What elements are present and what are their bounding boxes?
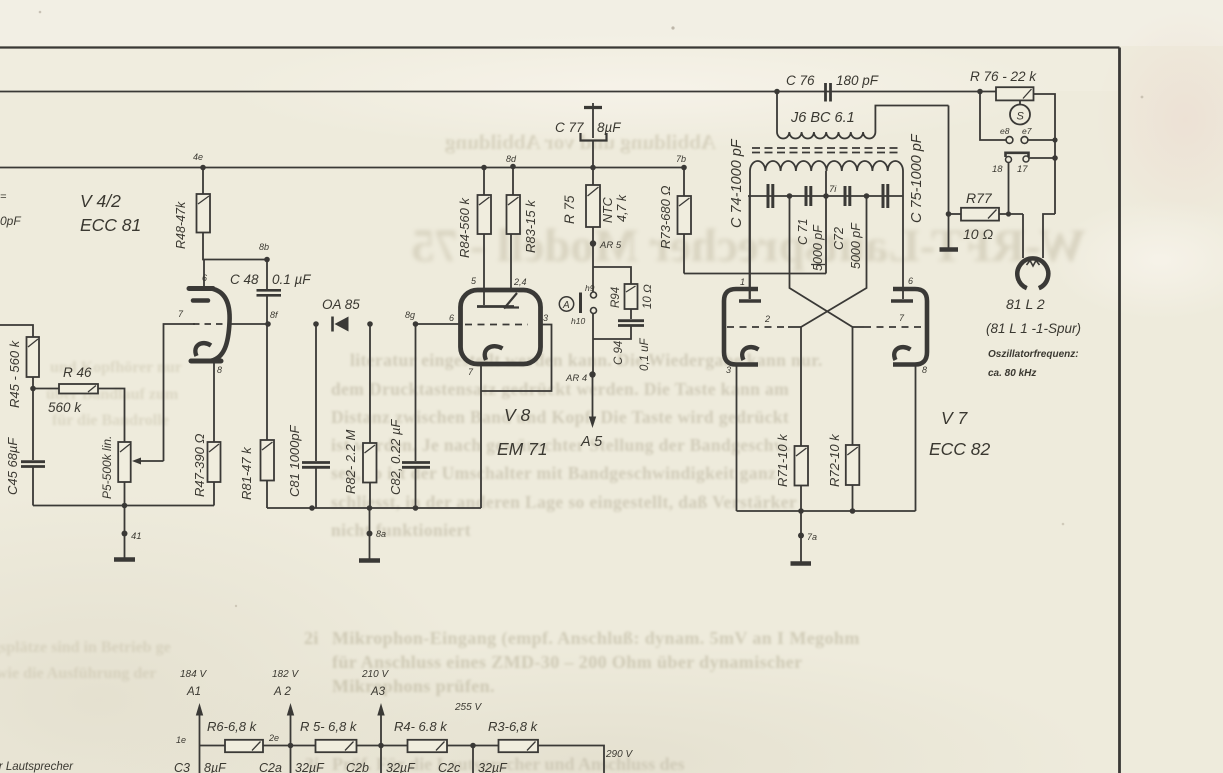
resistor R72-10k xyxy=(846,445,860,485)
svg-text:8: 8 xyxy=(922,365,927,375)
tube V8 pin7 wire down xyxy=(480,364,482,508)
capacitor C45 68uF xyxy=(32,389,34,461)
cross-coupling wires xyxy=(790,196,853,327)
svg-text:7b: 7b xyxy=(676,154,686,164)
resistor R5-6.8k xyxy=(316,740,357,752)
svg-text:EM 71: EM 71 xyxy=(497,439,548,459)
svg-text:8d: 8d xyxy=(506,154,517,164)
svg-text:32µF: 32µF xyxy=(478,761,508,773)
resistor R4-6.8k xyxy=(408,740,448,752)
svg-text:C82, 0.22 µF: C82, 0.22 µF xyxy=(388,419,403,495)
svg-text:8µF: 8µF xyxy=(204,761,227,773)
svg-text:6: 6 xyxy=(202,273,207,283)
resistor R84-560k xyxy=(481,165,487,171)
svg-text:R81-47 k: R81-47 k xyxy=(239,446,254,500)
node 7a with ground xyxy=(800,511,802,535)
branch wire to R94 xyxy=(593,267,631,284)
svg-text:ECC 82: ECC 82 xyxy=(929,439,991,459)
arrow to A5 xyxy=(592,375,594,420)
svg-text:1e: 1e xyxy=(176,735,186,745)
svg-text:R47-390 Ω: R47-390 Ω xyxy=(192,434,207,497)
resistor R48-47k xyxy=(202,168,204,195)
svg-text:C3: C3 xyxy=(174,761,190,773)
bleed-through paragraph text xyxy=(331,350,823,540)
capacitor leads below bus xyxy=(199,746,201,773)
capacitor C71 5000pF xyxy=(805,186,808,206)
svg-text:C 75-1000 pF: C 75-1000 pF xyxy=(909,133,925,223)
svg-text:(81 L 1 -1-Spur): (81 L 1 -1-Spur) xyxy=(986,321,1081,336)
svg-text:5000 pF: 5000 pF xyxy=(811,224,825,271)
tube V8 internal grid bar xyxy=(483,291,485,305)
svg-text:8b: 8b xyxy=(259,242,269,252)
svg-text:ECC 81: ECC 81 xyxy=(80,215,141,235)
svg-text:C 48: C 48 xyxy=(230,272,259,287)
svg-text:290 V: 290 V xyxy=(605,749,633,760)
capacitor C75-1000pF xyxy=(882,184,885,208)
wire transformer to R77 and ground xyxy=(948,106,950,249)
wire left edge to R45 xyxy=(0,325,33,337)
svg-text:OA 85: OA 85 xyxy=(322,297,360,312)
svg-text:R82- 2.2 M: R82- 2.2 M xyxy=(343,430,358,494)
svg-text:R83-15 k: R83-15 k xyxy=(523,199,538,253)
svg-text:AR 4: AR 4 xyxy=(565,373,587,384)
tube V7 left cathode rail xyxy=(736,365,738,512)
resistor R3-6.8k xyxy=(499,740,539,752)
svg-text:V 8: V 8 xyxy=(504,405,531,425)
tube V8 EM71 envelope xyxy=(461,290,541,364)
resistor R83-15k / node 8d xyxy=(510,164,516,170)
ground under node 41 xyxy=(124,534,126,559)
resistor R47-390R xyxy=(208,442,221,482)
tube V7 right envelope xyxy=(893,289,927,365)
svg-text:2,4: 2,4 xyxy=(513,277,527,287)
svg-text:wie die Ausführung der: wie die Ausführung der xyxy=(0,665,156,682)
svg-text:C 94: C 94 xyxy=(613,341,625,365)
P5 wiper arrow xyxy=(138,460,164,462)
svg-text:41: 41 xyxy=(131,531,142,542)
wire R48 to node 8b xyxy=(203,233,267,260)
tube V4/2 grid dashed line xyxy=(193,323,225,325)
svg-text:180 pF: 180 pF xyxy=(836,73,879,88)
svg-text:R3-6,8 k: R3-6,8 k xyxy=(488,719,539,734)
svg-text:P5-500k lin.: P5-500k lin. xyxy=(100,436,114,499)
svg-text:8: 8 xyxy=(217,365,222,375)
svg-text:0,1 uF: 0,1 uF xyxy=(639,337,651,371)
svg-text:C2b: C2b xyxy=(346,761,369,773)
wire tube arc to node 8f xyxy=(228,323,268,325)
scan specks xyxy=(39,11,1144,608)
svg-text:C72: C72 xyxy=(832,227,846,250)
node P5 bottom xyxy=(122,503,128,509)
oscillator transformer secondary xyxy=(750,161,903,171)
svg-text:C 71: C 71 xyxy=(796,219,810,245)
tube V4/2 envelope (half tube) xyxy=(189,286,213,291)
lamp 81 L 2 xyxy=(1017,258,1048,288)
svg-text:C 76: C 76 xyxy=(786,73,815,88)
capacitor C74-1000pF xyxy=(767,184,770,208)
svg-text:R77: R77 xyxy=(966,190,993,206)
svg-text:7i: 7i xyxy=(829,184,837,195)
svg-text:8a: 8a xyxy=(376,529,386,539)
svg-text:AR 5: AR 5 xyxy=(599,240,622,251)
lamp left lead xyxy=(1022,214,1024,258)
svg-text:R48-47k: R48-47k xyxy=(174,201,188,249)
svg-text:R72-10 k: R72-10 k xyxy=(827,433,842,487)
transformer core dashed lines xyxy=(752,147,901,149)
S lamp circle xyxy=(1019,100,1021,104)
wire AR5 down to branch xyxy=(592,244,594,268)
node 8f xyxy=(265,321,271,327)
arrow A2 xyxy=(288,743,294,749)
capacitor C72 5000pF xyxy=(844,186,847,206)
node AR4 xyxy=(589,371,595,377)
wire contact 18 down to R77 xyxy=(1008,163,1010,215)
svg-text:17: 17 xyxy=(1017,164,1028,175)
svg-text:560 k: 560 k xyxy=(48,400,82,415)
wire row to V7 right anode xyxy=(902,196,904,299)
svg-text:5000 pF: 5000 pF xyxy=(849,222,863,269)
svg-text:R6-6,8 k: R6-6,8 k xyxy=(207,719,258,734)
svg-text:81 L 2: 81 L 2 xyxy=(1006,296,1045,312)
svg-text:der Lautsprecher: der Lautsprecher xyxy=(0,761,74,773)
svg-text:J6 BC 6.1: J6 BC 6.1 xyxy=(790,110,855,126)
voltage divider bus bottom xyxy=(200,746,605,773)
wire to node 41 xyxy=(124,506,126,534)
svg-text:R94: R94 xyxy=(610,287,622,308)
wire 8f down to R81 xyxy=(266,324,268,440)
svg-text:R 75: R 75 xyxy=(562,195,577,224)
frame top line xyxy=(0,46,1120,48)
tube V7 right heater hook xyxy=(894,347,910,360)
resistor R6-6.8k xyxy=(225,740,263,752)
node C2c xyxy=(470,743,476,749)
tube V7 right cathode rail xyxy=(915,365,917,512)
tube V8 internal diagonal xyxy=(504,293,517,309)
svg-text:R45 - 560 k: R45 - 560 k xyxy=(7,339,22,408)
wire 8g to tube V8 xyxy=(416,323,462,325)
svg-text:184 V: 184 V xyxy=(180,669,207,680)
arrow A3 xyxy=(378,743,384,749)
grid junction to R71 xyxy=(800,327,802,446)
svg-text:4e: 4e xyxy=(193,152,203,162)
arrow A1 xyxy=(199,714,201,746)
grid junction to R72 xyxy=(852,327,854,445)
tube V4/2 heater hook xyxy=(195,343,211,356)
svg-text:R84-560 k: R84-560 k xyxy=(457,197,472,258)
svg-text:R 76 - 22 k: R 76 - 22 k xyxy=(970,69,1037,84)
V7 bottom rail xyxy=(737,510,916,512)
capacitor C94 0.1uF xyxy=(618,319,644,322)
node 8a with ground xyxy=(369,508,371,533)
svg-text:ca. 80 kHz: ca. 80 kHz xyxy=(988,368,1036,379)
svg-text:Mikrophon-Eingang (empf. Ansch: Mikrophon-Eingang (empf. Anschluß: dynam… xyxy=(332,628,860,649)
bus line 3 (anode rail) xyxy=(0,167,684,169)
potentiometer P5-500k lin xyxy=(118,442,131,482)
capacitor row line xyxy=(748,195,903,197)
svg-text:=: = xyxy=(0,191,7,203)
oscillator transformer J6 BC 6.1 primary xyxy=(774,89,780,95)
lamp right lead xyxy=(1043,214,1055,258)
wire R73 to transformer centre tap xyxy=(684,273,826,275)
node 7b xyxy=(681,165,687,171)
label underline under C71 value xyxy=(811,264,825,266)
svg-text:3: 3 xyxy=(543,313,548,323)
svg-text:V 7: V 7 xyxy=(941,408,969,428)
wire tube V4/2 pin6 xyxy=(203,260,205,287)
svg-text:V 4/2: V 4/2 xyxy=(80,191,121,211)
resistor R71-10k xyxy=(795,446,809,486)
resistor R45-560k xyxy=(27,337,40,377)
svg-text:A 2: A 2 xyxy=(273,686,291,698)
wire row to V7 left anode xyxy=(749,196,751,299)
svg-text:dem Drucktastensatz gedrückt w: dem Drucktastensatz gedrückt werden. Die… xyxy=(331,379,789,399)
svg-text:255 V: 255 V xyxy=(454,702,482,713)
wire transformer centre tap down xyxy=(825,196,827,274)
capacitor C77 8uF xyxy=(592,103,594,106)
svg-text:gsplätze sind in Betrieb ge: gsplätze sind in Betrieb ge xyxy=(0,639,171,656)
svg-text:R 46: R 46 xyxy=(63,365,92,380)
svg-text:10 Ω: 10 Ω xyxy=(963,226,993,242)
svg-text:R4- 6.8 k: R4- 6.8 k xyxy=(394,719,448,734)
tube V7 left heater hook xyxy=(742,347,758,360)
node R76 left xyxy=(977,89,983,95)
switch lever bar xyxy=(579,293,582,314)
svg-text:6: 6 xyxy=(908,276,913,286)
svg-text:R73-680 Ω: R73-680 Ω xyxy=(658,186,673,249)
capacitor C48 0.1uF xyxy=(257,289,282,292)
tube V7 left envelope xyxy=(724,289,758,365)
resistor R46 560k xyxy=(33,388,59,390)
tube V8 dashed grid line xyxy=(465,324,528,326)
bus line 2 (HT rail) xyxy=(0,91,996,93)
svg-text:literatur eingestellt werden k: literatur eingestellt werden kann. Die W… xyxy=(350,350,823,370)
svg-text:nicht funktioniert: nicht funktioniert xyxy=(331,520,471,540)
resistor R76-22k xyxy=(995,91,997,93)
svg-text:e8: e8 xyxy=(1000,126,1010,136)
svg-text:h10: h10 xyxy=(571,316,585,326)
svg-text:Oszillatorfrequenz:: Oszillatorfrequenz: xyxy=(988,349,1079,360)
frame right border xyxy=(1118,48,1121,773)
tube V7 left anode xyxy=(749,196,751,299)
switch contact h9 xyxy=(592,267,594,292)
resistor R77 10R xyxy=(949,213,962,215)
wire tube pin8 to R47 xyxy=(213,363,215,442)
tube V7 right grid dashed xyxy=(864,326,924,328)
node R45/R46 xyxy=(30,386,36,392)
bottom rail center section xyxy=(267,507,481,509)
svg-text:8g: 8g xyxy=(405,310,415,320)
resistor R73-680R xyxy=(683,168,685,197)
svg-text:S: S xyxy=(1017,111,1025,123)
svg-text:4,7 k: 4,7 k xyxy=(615,194,629,222)
tube V8 pin3 wire loop xyxy=(481,325,552,392)
node 8b xyxy=(264,257,270,263)
svg-text:A: A xyxy=(562,300,570,311)
node 4e xyxy=(200,165,206,171)
svg-text:7a: 7a xyxy=(807,532,817,542)
resistor R82-2.2M xyxy=(367,321,373,327)
svg-text:C2a: C2a xyxy=(259,761,282,773)
svg-text:Mikrophons prüfen.: Mikrophons prüfen. xyxy=(332,676,495,696)
diode OA 85 xyxy=(331,317,334,332)
resistor R81-47k xyxy=(261,440,275,481)
wire down to AR4 xyxy=(592,339,594,374)
capacitor C81 1000pF xyxy=(313,321,319,327)
circled A meter symbol xyxy=(559,297,573,311)
svg-text:e7: e7 xyxy=(1022,126,1032,136)
svg-text:210 V: 210 V xyxy=(361,669,389,680)
svg-text:C 74-1000 pF: C 74-1000 pF xyxy=(729,138,745,228)
bottom rail left section xyxy=(33,505,214,507)
svg-text:2: 2 xyxy=(764,314,770,324)
svg-text:R71-10 k: R71-10 k xyxy=(775,433,790,487)
svg-text:C81 1000pF: C81 1000pF xyxy=(287,424,302,497)
bleed-through faint left column fragments xyxy=(0,359,182,682)
svg-text:C2c: C2c xyxy=(438,761,461,773)
resistor R75 / NTC 4.7k xyxy=(592,168,594,186)
switch contact h10 xyxy=(591,308,597,314)
capacitor C82 0.22uF / node 8g xyxy=(413,321,419,327)
tube V8 heater hook xyxy=(485,346,503,360)
svg-text:2i: 2i xyxy=(304,628,319,648)
svg-text:8µF: 8µF xyxy=(597,120,621,135)
bleed-through numbered paragraph (Mikrophon-Eingang) xyxy=(304,628,860,696)
svg-text:C45 68µF: C45 68µF xyxy=(5,437,20,495)
svg-text:0pF: 0pF xyxy=(0,214,21,228)
wire node 8b down to C48 xyxy=(266,260,268,290)
svg-text:für Anschluss eines ZMD-30 – 2: für Anschluss eines ZMD-30 – 200 Ohm übe… xyxy=(332,652,803,672)
switch contacts e8 e7 xyxy=(980,92,1006,141)
svg-text:32µF: 32µF xyxy=(295,761,325,773)
svg-text:A 5: A 5 xyxy=(580,434,603,450)
svg-text:182 V: 182 V xyxy=(272,669,299,680)
svg-text:0.1 µF: 0.1 µF xyxy=(272,272,311,287)
svg-text:6: 6 xyxy=(449,313,454,323)
svg-text:3: 3 xyxy=(726,365,731,375)
wire pin7 to left and down xyxy=(164,324,196,461)
svg-text:NTC: NTC xyxy=(601,196,615,223)
svg-text:h9: h9 xyxy=(585,283,595,293)
svg-text:10 Ω: 10 Ω xyxy=(642,284,654,309)
tube V7 right anode xyxy=(891,299,913,303)
secondary taps down to capacitor row xyxy=(749,171,751,196)
bleed-through bottom fragment xyxy=(305,754,685,773)
svg-text:18: 18 xyxy=(992,164,1003,175)
svg-text:32µF: 32µF xyxy=(386,761,416,773)
svg-text:A3: A3 xyxy=(370,686,386,698)
svg-text:A1: A1 xyxy=(186,686,201,698)
svg-text:2e: 2e xyxy=(268,733,279,743)
capacitor C76 180pF xyxy=(824,83,827,102)
node 41 xyxy=(122,531,128,537)
switch bracket 18/17 xyxy=(1006,153,1029,157)
svg-text:1: 1 xyxy=(740,277,745,287)
svg-text:C 77: C 77 xyxy=(555,120,584,135)
svg-text:R 5- 6,8 k: R 5- 6,8 k xyxy=(300,719,358,734)
tube V7 left grid dashed xyxy=(727,326,788,328)
node AR5 xyxy=(590,240,596,246)
resistor R94 xyxy=(625,284,638,309)
